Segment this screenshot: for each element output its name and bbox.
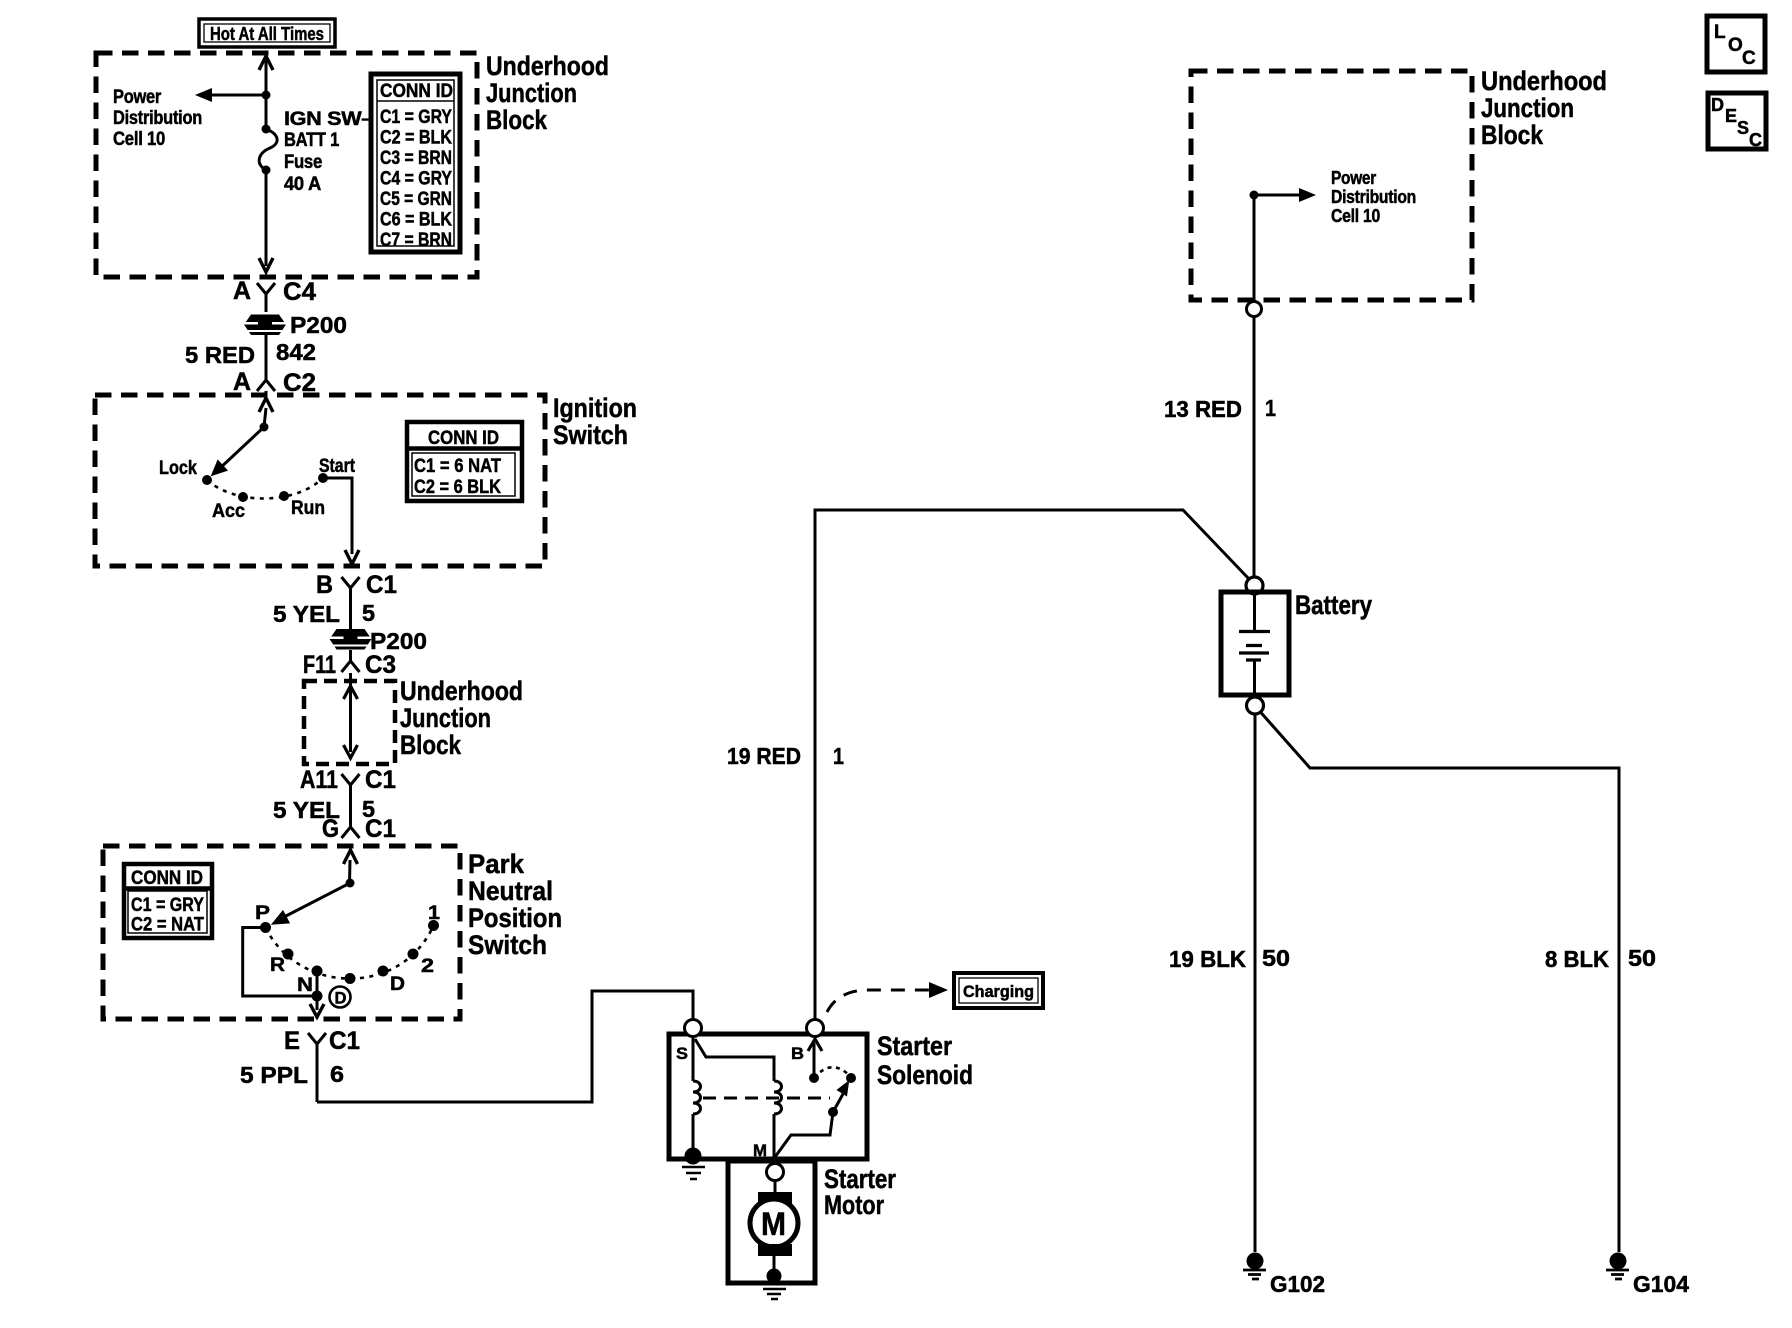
svg-text:Motor: Motor — [824, 1190, 884, 1220]
connector symbol female Y below ignition — [342, 577, 360, 629]
svg-text:Block: Block — [400, 730, 462, 760]
svg-text:Junction: Junction — [1481, 93, 1574, 123]
connector symbol female Y below park box — [308, 1033, 326, 1102]
wire from P contact to output junction — [243, 928, 317, 997]
pin label E C1 connector — [284, 1027, 360, 1055]
arrow up into park box top edge — [344, 850, 358, 864]
DESC icon box — [1708, 93, 1766, 150]
motor armature circle M — [750, 1199, 798, 1247]
svg-text:C1: C1 — [329, 1027, 360, 1055]
svg-text:Power: Power — [113, 87, 162, 108]
svg-text:Junction: Junction — [486, 78, 577, 108]
switch contact low (D) — [345, 973, 356, 984]
ground symbol below solenoid — [682, 1167, 705, 1179]
svg-text:Underhood: Underhood — [400, 676, 523, 706]
node pivot dot park — [346, 879, 355, 888]
svg-text:Acc: Acc — [212, 501, 245, 522]
switch contact Acc — [238, 492, 248, 502]
pin label B C1 connector — [316, 571, 397, 599]
svg-text:C: C — [1742, 48, 1756, 69]
node pivot dot — [260, 423, 269, 432]
label Starter Solenoid — [877, 1031, 973, 1090]
wire battery negative branch to right — [1260, 712, 1619, 1253]
svg-text:842: 842 — [276, 339, 316, 365]
svg-text:C: C — [1749, 130, 1762, 150]
wire into ignition box — [265, 391, 268, 398]
fixed contact dot — [846, 1073, 856, 1083]
label Underhood Junction Block — [486, 51, 609, 135]
svg-text:B: B — [791, 1044, 804, 1063]
starter solenoid box — [669, 1034, 867, 1159]
wire run from park switch to solenoid S — [317, 991, 693, 1102]
svg-text:Underhood: Underhood — [1481, 66, 1607, 96]
switch contact N — [312, 966, 323, 977]
wire label 5 YEL 5 lower — [273, 796, 375, 823]
svg-text:Switch: Switch — [468, 930, 547, 960]
svg-text:Hot At All Times: Hot At All Times — [210, 24, 324, 44]
svg-text:D: D — [335, 989, 347, 1008]
svg-text:5 PPL: 5 PPL — [240, 1062, 308, 1088]
switch wiper arm toward Lock — [218, 427, 264, 470]
svg-text:D: D — [390, 974, 405, 995]
svg-text:F11: F11 — [303, 651, 336, 679]
underhood junction block 1 dashed box — [96, 53, 477, 277]
switch contact Lock — [202, 475, 212, 485]
arrow up at top edge — [259, 56, 273, 70]
battery top terminal circle — [1246, 577, 1263, 594]
switch contact Run — [279, 491, 289, 501]
fuse IGN SW-BATT 1 40 A — [259, 125, 277, 175]
svg-text:CONN ID: CONN ID — [428, 428, 499, 449]
pin label A C2 connector — [233, 368, 316, 397]
svg-text:P: P — [255, 903, 270, 924]
svg-text:C1: C1 — [365, 815, 396, 843]
wire from B terminal into box — [813, 1043, 816, 1078]
SECTION: loc desc icons — [1707, 16, 1766, 150]
wire from dot down to box edge — [1253, 195, 1256, 301]
label Starter Motor — [824, 1164, 896, 1220]
switch contact 2 — [408, 949, 419, 960]
svg-text:Charging: Charging — [963, 982, 1034, 1001]
svg-text:A: A — [233, 368, 251, 396]
label Hot At All Times box — [199, 19, 335, 47]
wire from contact arm to M — [775, 1112, 833, 1157]
svg-text:IGN SW–: IGN SW– — [284, 109, 373, 130]
dashed detent arc P-R-N-D-2-1 — [266, 926, 434, 979]
wire label 8 BLK 50 — [1545, 945, 1656, 972]
arrow down at park box bottom edge — [310, 1004, 324, 1017]
wire through junction block 2 with both arrows — [344, 673, 358, 758]
wire M terminal to brush — [774, 1181, 777, 1194]
svg-text:5: 5 — [362, 600, 375, 626]
ground G104 symbol — [1606, 1253, 1629, 1280]
svg-text:C3 = BRN: C3 = BRN — [380, 148, 452, 169]
ground dot inside solenoid — [685, 1148, 702, 1165]
svg-text:5 RED: 5 RED — [185, 342, 255, 368]
svg-text:Block: Block — [1481, 120, 1544, 150]
wire from N contact down and out of box — [316, 971, 319, 1010]
pin label A11 C1 connector — [300, 766, 396, 794]
svg-text:C1 = GRY: C1 = GRY — [131, 895, 204, 916]
svg-text:CONN ID: CONN ID — [131, 868, 203, 889]
switch wiper arm toward P — [284, 883, 350, 917]
svg-text:Position: Position — [468, 903, 562, 933]
terminal S circle — [685, 1020, 702, 1037]
svg-text:C3: C3 — [365, 651, 396, 679]
pull-in coil from S to M — [695, 1039, 782, 1159]
battery cell plates — [1239, 594, 1270, 697]
label Power Distribution Cell 10 right — [1331, 168, 1416, 226]
terminal M circle — [767, 1164, 784, 1181]
svg-text:Starter: Starter — [877, 1031, 952, 1061]
svg-text:Junction: Junction — [400, 703, 491, 733]
wire between P200 and C2 — [265, 333, 268, 375]
wire from Start contact down — [323, 478, 352, 554]
arrow up below B terminal — [808, 1039, 822, 1051]
arrow down at bottom edge — [259, 258, 273, 272]
svg-text:50: 50 — [1262, 945, 1290, 971]
svg-text:Ignition: Ignition — [553, 393, 637, 423]
node junction dot — [262, 91, 271, 100]
wire from solenoid B up and to battery — [815, 510, 1249, 1020]
svg-text:Start: Start — [319, 456, 356, 477]
svg-text:40 A: 40 A — [284, 174, 322, 195]
svg-text:R: R — [270, 955, 285, 976]
SECTION: starter solenoid and motor — [669, 973, 1043, 1299]
svg-text:Lock: Lock — [159, 458, 197, 479]
svg-text:S: S — [676, 1044, 688, 1063]
svg-text:S: S — [1737, 118, 1749, 138]
svg-text:1: 1 — [428, 903, 440, 924]
underhood junction block 3 dashed box — [1191, 71, 1472, 300]
svg-text:C2 = 6 BLK: C2 = 6 BLK — [414, 476, 501, 498]
CONN ID table park switch — [124, 864, 212, 938]
arrow down at box bottom edge — [345, 550, 359, 564]
switch contact 1 — [428, 920, 439, 931]
label Ignition Switch — [553, 393, 637, 450]
svg-text:1: 1 — [1265, 395, 1276, 421]
ground G102 symbol — [1243, 1253, 1266, 1280]
ground symbol below motor — [763, 1289, 786, 1299]
svg-text:6: 6 — [330, 1061, 344, 1087]
dashed mechanical linkage — [703, 1097, 830, 1100]
svg-text:C1: C1 — [365, 766, 396, 794]
connector symbol male at G C1 — [342, 827, 360, 838]
connector symbol female Y at C4 — [257, 283, 275, 312]
svg-text:D: D — [1711, 95, 1724, 115]
label Underhood Junction Block right — [1481, 66, 1607, 150]
svg-text:C6 = BLK: C6 = BLK — [380, 210, 452, 231]
underhood junction block 2 dashed box — [304, 681, 395, 764]
switch contact D — [378, 966, 389, 977]
switch contact Start — [318, 473, 328, 483]
label IGN SW-BATT 1 Fuse 40 A — [284, 109, 373, 195]
svg-text:Run: Run — [291, 498, 325, 519]
wire entering park switch — [348, 860, 352, 883]
svg-text:Power: Power — [1331, 168, 1376, 188]
svg-text:Fuse: Fuse — [284, 152, 322, 173]
connector circle on box edge — [1247, 302, 1262, 317]
svg-text:Underhood: Underhood — [486, 51, 609, 81]
svg-text:G102: G102 — [1270, 1271, 1325, 1297]
svg-text:E: E — [1725, 106, 1737, 126]
svg-text:5 YEL: 5 YEL — [273, 601, 340, 627]
pin label A C4 connector — [233, 277, 316, 306]
switch contact P — [260, 922, 271, 933]
svg-text:M: M — [761, 1206, 786, 1242]
label Park Neutral Position Switch — [468, 849, 562, 960]
svg-text:C1 = 6 NAT: C1 = 6 NAT — [414, 455, 501, 477]
inline connector P200 lower — [330, 628, 428, 654]
svg-text:BATT 1: BATT 1 — [284, 130, 340, 151]
svg-text:C2 = NAT: C2 = NAT — [131, 915, 204, 936]
CONN ID table ignition — [407, 422, 522, 501]
SECTION: ignition switch — [95, 393, 637, 679]
svg-text:Cell 10: Cell 10 — [113, 129, 165, 150]
wire label 13 RED 1 — [1164, 395, 1276, 422]
svg-text:C2 = BLK: C2 = BLK — [380, 128, 452, 149]
node junction dot on output — [312, 991, 323, 1002]
svg-text:C1 = GRY: C1 = GRY — [380, 107, 452, 128]
svg-text:8 BLK: 8 BLK — [1545, 946, 1609, 972]
svg-text:C4 = GRY: C4 = GRY — [380, 169, 452, 190]
pin label F11 C3 connector — [303, 651, 396, 679]
svg-text:2: 2 — [421, 956, 434, 977]
node dot in UJB3 — [1250, 191, 1259, 200]
svg-text:C1: C1 — [366, 571, 397, 599]
label Power Distribution Cell 10 — [113, 87, 202, 150]
park neutral position switch dashed box — [103, 846, 460, 1019]
SECTION: middle small junction block and park switch — [103, 673, 693, 1102]
wire label 5 PPL 6 — [240, 1061, 344, 1088]
battery box — [1221, 592, 1289, 695]
svg-text:A11: A11 — [300, 766, 338, 794]
svg-text:C4: C4 — [283, 278, 316, 306]
svg-text:G: G — [322, 815, 339, 843]
svg-text:G104: G104 — [1633, 1271, 1689, 1297]
svg-text:Distribution: Distribution — [113, 108, 202, 129]
svg-text:Park: Park — [468, 849, 525, 879]
connector symbol male at C2 — [257, 375, 275, 391]
starter motor box — [728, 1161, 815, 1283]
connector symbol female Y below UJB2 — [342, 774, 360, 827]
svg-text:CONN ID: CONN ID — [380, 81, 453, 102]
svg-text:Battery: Battery — [1295, 590, 1372, 620]
wire down to battery — [1253, 316, 1256, 576]
svg-text:Block: Block — [486, 105, 548, 135]
ground dot starter motor — [767, 1269, 782, 1284]
arrow up into top edge — [259, 398, 273, 412]
dashed contact arc — [814, 1067, 851, 1078]
contact dot under B — [809, 1073, 819, 1083]
svg-text:50: 50 — [1628, 945, 1656, 971]
wire vertical feed in UJB1 — [265, 60, 268, 266]
pin label G C1 connector — [322, 815, 396, 843]
motor top brush — [758, 1192, 792, 1204]
motor bottom brush — [758, 1244, 792, 1256]
label Underhood Junction Block — [400, 676, 523, 760]
svg-text:Neutral: Neutral — [468, 876, 553, 906]
svg-text:B: B — [316, 571, 333, 599]
svg-text:19 BLK: 19 BLK — [1169, 946, 1246, 972]
wire label 5 YEL 5 — [273, 600, 375, 627]
charging dashed arrow — [827, 982, 948, 1012]
svg-text:Distribution: Distribution — [1331, 187, 1416, 207]
svg-text:1: 1 — [833, 743, 844, 769]
svg-text:C5 = GRN: C5 = GRN — [380, 189, 452, 210]
inline connector P200 — [244, 312, 347, 338]
svg-text:N: N — [297, 975, 313, 996]
moving contact arm with arrow — [828, 1082, 849, 1118]
svg-text:Solenoid: Solenoid — [877, 1060, 973, 1090]
svg-text:P200: P200 — [290, 312, 347, 338]
CONN ID table UJB1 — [371, 74, 460, 252]
svg-text:13 RED: 13 RED — [1164, 396, 1242, 422]
connector symbol male at C3 — [342, 650, 360, 672]
SECTION: right side battery and grounds — [727, 66, 1689, 1297]
wire label 19 BLK 50 — [1169, 945, 1290, 972]
wire arrow to Power Distribution — [208, 94, 266, 97]
svg-text:19 RED: 19 RED — [727, 743, 801, 769]
wire brush to ground — [773, 1256, 776, 1272]
hold-in coil from S to ground — [693, 1037, 701, 1150]
wire entering ignition switch — [264, 408, 266, 427]
wire label 19 RED 1 — [727, 743, 844, 769]
svg-text:Cell 10: Cell 10 — [1331, 206, 1380, 226]
svg-text:Switch: Switch — [553, 420, 628, 450]
label Charging box — [954, 973, 1043, 1008]
svg-text:A: A — [233, 277, 251, 305]
terminal B circle — [807, 1020, 824, 1037]
LOC icon box — [1707, 16, 1765, 72]
svg-text:C7 = BRN: C7 = BRN — [380, 230, 452, 251]
svg-text:E: E — [284, 1027, 300, 1055]
svg-text:L: L — [1714, 22, 1726, 43]
wire label 5 RED 842 — [185, 339, 316, 368]
dashed detent arc Lock-Acc-Run-Start — [207, 478, 323, 499]
svg-text:O: O — [1728, 35, 1743, 56]
battery bottom terminal circle — [1247, 697, 1264, 714]
ignition switch dashed box — [95, 395, 545, 566]
switch contact R — [283, 949, 294, 960]
label circled D overdrive — [330, 987, 351, 1008]
svg-text:M: M — [753, 1141, 767, 1160]
wire arrow to Power Distribution right — [1254, 188, 1316, 202]
wire battery to ground G102 — [1254, 714, 1257, 1252]
SECTION: top-left underhood junction block — [96, 19, 609, 398]
